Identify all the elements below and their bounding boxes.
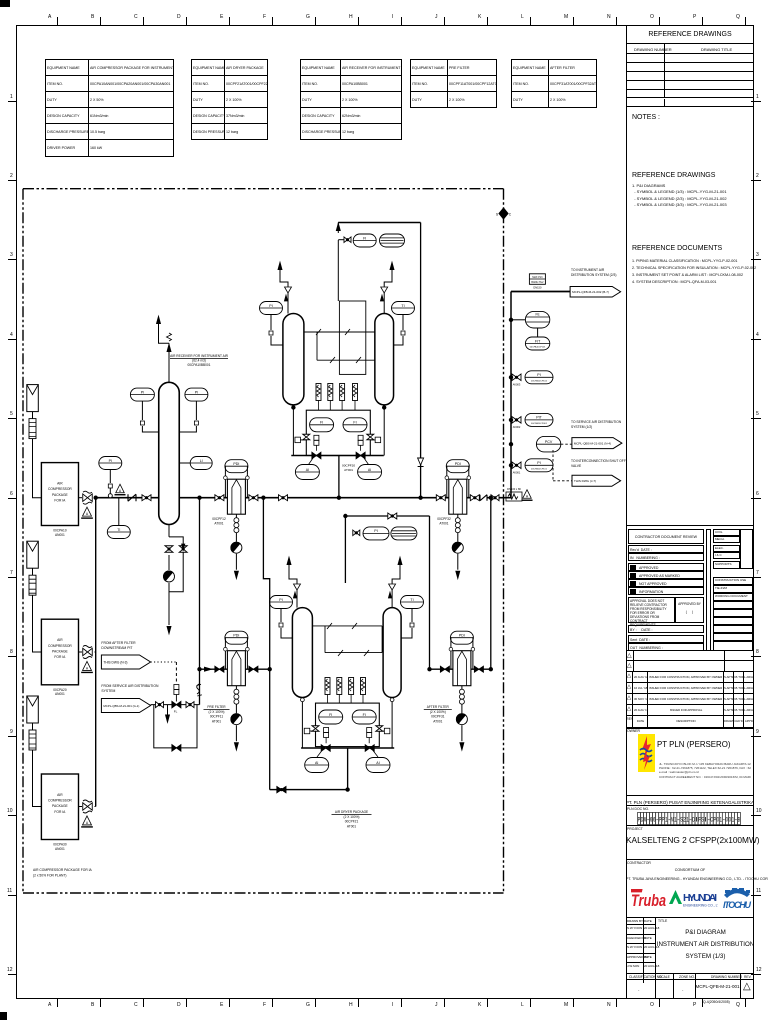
instrument capsule FIT (525, 337, 549, 350)
bypass loop interconnection (154, 705, 197, 748)
instrument capsule PI 00CPA10CP101 (525, 459, 553, 472)
gate valve small left on PI/TI line (353, 530, 360, 536)
svg-text:COMPRESSOR: COMPRESSOR (48, 487, 72, 491)
diagonal stem to AI capsule right 2 (373, 751, 378, 758)
intake flex connector 2 (29, 575, 36, 595)
svg-text:AN001: AN001 (55, 692, 65, 696)
reference drawings header (626, 25, 754, 44)
svg-text:C: C (509, 213, 512, 217)
instrument capsule left of tower A (260, 302, 283, 315)
svg-text:PI: PI (279, 598, 282, 602)
svg-text:00CPA10CP102: 00CPA10CP102 (531, 379, 548, 382)
title block bottom strip (626, 974, 754, 999)
top ruler letters (0, 0, 768, 1)
crossover piping second dryer (312, 625, 382, 627)
svg-text:FI: FI (363, 713, 366, 717)
diagonal stem to AI capsule left 2 (317, 751, 322, 758)
svg-text:(2 X 100%): (2 X 100%) (430, 710, 446, 714)
wire intake to compressor 3 (32, 723, 34, 730)
svg-text:PDI: PDI (459, 634, 465, 638)
PLN logo (638, 734, 655, 772)
svg-text:00CPF32: 00CPF32 (437, 517, 451, 521)
instrument capsule AI below manifold 2 left (305, 758, 329, 773)
RIGHT PANEL (626, 25, 754, 999)
instrument capsule PI on header (99, 457, 122, 470)
angle valve right bottom manifold (356, 452, 365, 459)
svg-text:FIT: FIT (535, 339, 541, 343)
wire receiver drain down (168, 583, 170, 625)
relief spring on receiver vent (167, 333, 172, 341)
junction dots on headers (198, 496, 201, 499)
intake flex connector 1 (29, 419, 36, 439)
vent relief tower A (287, 293, 289, 314)
check valve header battery limit (480, 495, 487, 501)
svg-text:FOR IA: FOR IA (54, 655, 66, 659)
reference drawings list (632, 172, 715, 179)
svg-text:AIR: AIR (57, 793, 63, 797)
svg-text:COMPRESSOR: COMPRESSOR (48, 644, 72, 648)
compressor package box 1 (AIR COMPRESSOR PACKAGE FOR IA) (41, 463, 78, 526)
svg-text:AI: AI (306, 468, 309, 472)
svg-text:TO INTERCONNECTION SHUT OFF: TO INTERCONNECTION SHUT OFF (571, 459, 626, 463)
drain triangle A compressor 2 (83, 661, 92, 670)
signal square symbol (174, 685, 179, 690)
svg-text:PI: PI (537, 373, 540, 377)
filter vessel 00CPF11 (227, 651, 245, 686)
drain trap ball of filter 00CPF11 (231, 714, 242, 725)
vent relief tower C (296, 590, 298, 608)
svg-text:AIR RECEIVER FOR INSTRUMENT AI: AIR RECEIVER FOR INSTRUMENT AIR (170, 354, 229, 358)
equipment table T1: air compressor package (45, 59, 174, 157)
svg-text:TI: TI (410, 598, 413, 602)
svg-text:00CPF31: 00CPF31 (431, 715, 445, 719)
instrument capsule PI right of receiver (185, 388, 208, 401)
receiver drain bypass loop (168, 525, 170, 537)
dryer tower B (right) top package (375, 314, 394, 405)
wire after-filter-31 outlet riser (490, 498, 492, 670)
svg-text:PIT: PIT (536, 416, 542, 420)
svg-text:MCPL-QBS-M-21-001 (G-1): MCPL-QBS-M-21-001 (G-1) (103, 704, 139, 708)
svg-text:PACKAGE: PACKAGE (52, 493, 68, 497)
svg-text:PI: PI (195, 390, 198, 394)
wire tower A bottom to manifold (292, 405, 294, 456)
middle rotated strip (706, 529, 711, 651)
diagonal stem to AI capsule right (364, 458, 369, 465)
svg-text:THIS DWG (N-3): THIS DWG (N-3) (103, 660, 127, 664)
dryer tower A (left) top package (283, 314, 304, 405)
owner block : PT PLN (PERSERO) (626, 728, 754, 1000)
wire header crossing battery limit to riser (487, 497, 511, 499)
solenoid valve left manifold 2 (304, 728, 310, 734)
svg-text:COMPRESSOR: COMPRESSOR (48, 799, 72, 803)
revision table (626, 650, 754, 728)
svg-text:FROM SERVICE AIR DISTRIBUTION: FROM SERVICE AIR DISTRIBUTION (101, 684, 159, 688)
instrument capsule left of tower C (270, 596, 293, 609)
contractor (626, 860, 754, 918)
svg-text:TI: TI (117, 528, 120, 532)
notes (632, 114, 660, 121)
svg-text:AI: AI (368, 468, 371, 472)
instrument capsule AI below manifold right (358, 465, 382, 480)
instrument capsule FI right manifold 2 (352, 710, 376, 724)
drain chain of filter 00CPF32 (457, 514, 459, 518)
instrument capsule right of tower B (392, 302, 415, 315)
svg-text:AIR: AIR (57, 638, 63, 642)
valve AV003 (512, 374, 521, 381)
discharge flex and valve compressor 3 (79, 806, 83, 808)
instrument capsule FI left manifold 2 (319, 710, 343, 724)
drain arrow of filter 00CPF12 (235, 554, 237, 570)
corner scan blob (0, 0, 10, 7)
HOLD PT box on header (529, 274, 545, 285)
triangle A tag on header (116, 484, 125, 493)
wire dryer-2 outlet downcomer (429, 516, 431, 669)
vent bent arrow above receiver (159, 322, 170, 343)
svg-text:PRE FILTER: PRE FILTER (207, 705, 226, 709)
svg-text:FI: FI (320, 421, 323, 425)
wire service air riser A (199, 498, 201, 705)
instrument capsule PIT 00CPA10CP401 (525, 413, 553, 426)
left column (628, 529, 704, 544)
svg-text:AV001: AV001 (513, 471, 521, 475)
flex DN100x80 at battery limit (506, 492, 522, 501)
gate valve header after pre-filter (279, 495, 288, 501)
wire capsule to tower A (270, 315, 272, 331)
connector THIS DWG (J-7) (572, 475, 621, 486)
vessel air receiver 00CPA10BB001 (159, 382, 180, 524)
svg-text:AIR COMPRESSOR PACKAGE FOR IA: AIR COMPRESSOR PACKAGE FOR IA (33, 868, 93, 872)
dashed signal line down to THIS DWG connector (552, 450, 554, 481)
right ruler numbers (0, 0, 768, 1)
instrument capsule PCV to service air (536, 436, 560, 452)
svg-text:(2 x 50% FOR PLANT): (2 x 50% FOR PLANT) (33, 874, 67, 878)
drain chain of filter 00CPF31 (461, 686, 463, 690)
wire receiver vent line (168, 343, 170, 382)
gate valve on second dryer inlet (388, 513, 397, 519)
bypass globe valve (172, 745, 181, 752)
wire from service air connector (151, 704, 200, 706)
svg-text:AV002: AV002 (513, 425, 521, 429)
Itochu logo (722, 885, 752, 912)
svg-text:DOWNSTREAM PIT: DOWNSTREAM PIT (101, 646, 132, 650)
svg-text:PI: PI (269, 304, 272, 308)
drain valve right branch (179, 546, 187, 553)
contractor document review block (626, 525, 754, 650)
drain chain of filter 00CPF11 (235, 686, 237, 690)
node S.C boundary diamond (499, 208, 508, 219)
drain chain of filter 00CPF12 (235, 514, 237, 518)
svg-text:AIR: AIR (57, 482, 63, 486)
drain trap ball of filter 00CPF31 (456, 714, 467, 725)
drain arrow of filter 00CPF32 (457, 554, 459, 570)
instrument capsule TI after dryer (391, 527, 417, 540)
gate valve on interconnection (156, 702, 164, 708)
wire top distribution header (511, 291, 571, 293)
svg-text:00CPA10CP401: 00CPA10CP401 (531, 422, 548, 425)
svg-text:AN001: AN001 (55, 533, 65, 537)
instrument capsule FI right in manifold (343, 418, 367, 432)
wire discharge collector vertical (95, 498, 97, 807)
svg-text:AT001: AT001 (214, 521, 223, 525)
wire riser B upper (263, 498, 269, 790)
svg-text:LI: LI (200, 459, 203, 463)
svg-text:DISTRIBUTION SYSTEM (2/3): DISTRIBUTION SYSTEM (2/3) (571, 273, 616, 277)
wire header to riser (504, 497, 512, 499)
check valve on header (128, 494, 136, 501)
wire PI to header (109, 470, 111, 484)
impulse lines PDI 00CPF12 (224, 475, 226, 498)
instrument capsule LI right of receiver (190, 457, 212, 470)
svg-text:MAX P13: MAX P13 (532, 276, 543, 279)
svg-text:PI: PI (109, 459, 112, 463)
instrument capsule PDI of filter 00CPF12 (225, 460, 248, 473)
compressor package box 3 (AIR COMPRESSOR PACKAGE FOR IA) (41, 774, 78, 840)
drain branch of interconnection (167, 705, 169, 719)
top dryer manifold box (306, 410, 370, 455)
left ruler numbers (0, 0, 768, 1)
svg-text:00CPA10CF101: 00CPA10CF101 (530, 345, 547, 348)
instrument capsule PI after dryer (363, 527, 389, 540)
discharge flex and valve compressor 2 (79, 651, 83, 653)
svg-text:AI: AI (315, 761, 318, 765)
gate valve 2 on interconnection (186, 702, 194, 708)
gate valve left of filter 00CPF11 (215, 666, 224, 672)
connector THIS DWG (N-3) (101, 655, 150, 669)
instrument capsule AI below manifold left (295, 465, 319, 480)
instrument square pair left manifold 2 (324, 728, 329, 733)
gate valve right of filter 00CPF11 (249, 666, 258, 672)
svg-text:PACKAGE: PACKAGE (52, 649, 68, 653)
silencer regen line (380, 234, 405, 247)
instrument capsule FE flow element (525, 311, 549, 328)
svg-text:FL: FL (174, 710, 178, 714)
second dryer manifold box (316, 703, 380, 747)
svg-text:00CPA10: 00CPA10 (53, 529, 67, 533)
svg-text:MCPL-QBS-M-21-001 (N-4): MCPL-QBS-M-21-001 (N-4) (574, 442, 611, 446)
angle valve right bottom manifold 2 (365, 745, 374, 752)
dryer tower D (right) second package (383, 608, 401, 698)
heater elements second dryer (325, 678, 330, 695)
instrument capsule PDI of filter 00CPF32 (446, 460, 469, 473)
svg-text:FI: FI (353, 421, 356, 425)
svg-text:(2 X 100%): (2 X 100%) (209, 710, 225, 714)
crossover lower line with valves (317, 359, 375, 361)
svg-text:AV003: AV003 (513, 383, 521, 387)
flow arrow on prefilter header (205, 667, 212, 671)
svg-text:AT001: AT001 (433, 719, 442, 723)
angle valve left bottom manifold (312, 452, 321, 459)
connector MCPL-QBS-M-21-001 (N-4) (572, 438, 622, 449)
wire regeneration vent line top dryer (337, 240, 339, 301)
instrument square pair right manifold (358, 435, 363, 440)
wire discharge 2 to collector (95, 651, 97, 653)
svg-text:TI: TI (401, 304, 404, 308)
vent relief tower D (391, 590, 393, 608)
battery limit boundary (dash-dot box) (23, 189, 504, 893)
svg-text:00CPF21: 00CPF21 (345, 820, 359, 824)
svg-text:AIR DRYER PACKAGE: AIR DRYER PACKAGE (335, 810, 368, 814)
svg-text:PDI: PDI (233, 634, 239, 638)
instrument capsule right of tower D (401, 596, 424, 609)
svg-text:PI: PI (141, 390, 144, 394)
equipment table T5: after filter (511, 59, 597, 108)
svg-text:PACKAGE: PACKAGE (52, 804, 68, 808)
svg-text:DN150: DN150 (533, 286, 542, 290)
crossover upper line with valves (304, 331, 375, 333)
instrument capsule FI regen (353, 234, 376, 247)
svg-text:00CPF12: 00CPF12 (212, 517, 226, 521)
svg-text:S: S (496, 213, 499, 217)
svg-text:TO SERVICE AIR DISTRIBUTION: TO SERVICE AIR DISTRIBUTION (571, 420, 622, 424)
gate valve on header (142, 495, 151, 501)
valve AV001 (512, 462, 521, 469)
bottom ruler letters (0, 0, 768, 1)
gate valve left of filter 00CPF31 (440, 666, 449, 672)
wire regen top header to downcomer (338, 222, 420, 224)
svg-text:FI: FI (363, 236, 366, 240)
wire PI to receiver (195, 401, 197, 420)
svg-text:00CPF11: 00CPF11 (210, 715, 223, 719)
gate valve left of filter 00CPF12 (215, 495, 224, 501)
svg-text:FE: FE (536, 313, 540, 317)
wire second dryer bottom outlet (270, 748, 348, 790)
manifold bottom header top dryer (291, 455, 384, 457)
wire tower B bottom to manifold (383, 405, 385, 456)
valve AV002 (512, 417, 521, 424)
purge valve regen line (344, 237, 351, 243)
air intake filter for compressor 2 (27, 541, 39, 568)
dashed signal PCV to connector (561, 443, 572, 445)
wire prefilter-11 inlet header (200, 668, 270, 670)
solenoid valve left of manifold (295, 437, 301, 443)
angle valve left bottom manifold 2 (321, 745, 330, 752)
wire header to FE (511, 319, 525, 321)
instrument square pair right manifold 2 (367, 728, 372, 733)
filter vessel 00CPF32 (449, 479, 467, 514)
svg-text:PDI: PDI (455, 462, 461, 466)
reference documents (632, 245, 722, 252)
wire dryer-2 inlet bottom run (270, 789, 348, 791)
drain triangle A compressor 3 (83, 816, 92, 825)
instrument capsule AI below manifold 2 right (366, 758, 390, 773)
vent relief tower B (383, 293, 385, 314)
equipment table T3: air receiver (300, 59, 402, 140)
svg-text:FI: FI (329, 713, 332, 717)
Truba logo (631, 887, 667, 911)
right mini table (713, 529, 740, 536)
svg-text:PI: PI (537, 461, 540, 465)
svg-text:BA60x HL2: BA60x HL2 (531, 281, 544, 284)
svg-text:AI: AI (376, 761, 379, 765)
filter vessel 00CPF12 (227, 479, 245, 514)
Hyundai logo (668, 887, 718, 911)
drain trap ball of filter 00CPF32 (452, 542, 463, 553)
wire PSH to receiver (141, 401, 143, 420)
svg-text:FROM AFTER FILTER: FROM AFTER FILTER (101, 641, 136, 645)
wire after-filter-31 header (430, 668, 491, 670)
equipment table T2: air dryer package (191, 59, 268, 140)
svg-text:SYSTEM (1/2): SYSTEM (1/2) (571, 425, 592, 429)
wire dryer-2 inlet riser (347, 748, 349, 790)
instrument square pair left manifold (314, 435, 319, 440)
svg-text:(62.4 m3): (62.4 m3) (192, 359, 206, 363)
impulse lines PDI 00CPF31 (450, 646, 452, 669)
drain triangle A compressor 1 (83, 507, 92, 516)
drain arrow of filter 00CPF31 (461, 725, 463, 741)
wire riser header to top dryer manifold (338, 456, 340, 498)
wire dryer inlet line second package (344, 516, 346, 583)
svg-text:00CPA20: 00CPA20 (53, 688, 67, 692)
svg-text:PI: PI (374, 529, 377, 533)
instrument capsule PDI of filter 00CPF11 (225, 631, 248, 644)
control valve FL with actuator (172, 701, 181, 708)
wire FE to FIT (537, 328, 539, 337)
compressor package box 2 (AIR COMPRESSOR PACKAGE FOR IA) (41, 619, 78, 685)
instrument capsule PSH left of receiver (130, 388, 154, 401)
svg-text:VALVE: VALVE (571, 464, 582, 468)
wire intake to compressor 1 (32, 412, 34, 419)
wire main header from compressors to after-filter (96, 497, 481, 499)
svg-text:FOR IA: FOR IA (54, 810, 66, 814)
filter vessel 00CPF31 (453, 651, 471, 686)
gate valve header battery limit (491, 495, 499, 501)
svg-text:AFTER FILTER: AFTER FILTER (427, 705, 450, 709)
solenoid valve right of manifold (375, 437, 381, 443)
crossover piping box top dryer (339, 301, 365, 374)
equipment table T4: pre filter (410, 59, 497, 108)
svg-text:00CPA30: 00CPA30 (53, 843, 67, 847)
wire tower C bottom to manifold 2 (301, 698, 303, 749)
svg-text:FOR IA: FOR IA (54, 498, 66, 502)
wire discharge 1 to collector (95, 497, 97, 499)
air intake filter for compressor 1 (27, 385, 39, 412)
triangle A tag at battery limit (523, 490, 532, 499)
svg-text:PCV: PCV (545, 440, 553, 444)
gate valve right of filter 00CPF12 (249, 495, 258, 501)
drawn-by / title table (626, 918, 754, 974)
impulse lines PDI 00CPF32 (446, 475, 448, 498)
wire tower D bottom to manifold 2 (391, 698, 393, 749)
wire discharge 3 to collector (95, 806, 97, 808)
heater elements top dryer (316, 384, 321, 401)
svg-text:AN001: AN001 (55, 847, 65, 851)
air intake filter for compressor 3 (27, 696, 39, 723)
svg-text:SYSTEM: SYSTEM (101, 689, 115, 693)
instrument capsule TI below header (107, 526, 130, 539)
impulse lines PDI 00CPF11 (224, 646, 226, 669)
manifold bottom header second dryer (301, 747, 394, 749)
gate valve left of filter 00CPF32 (436, 495, 445, 501)
instrument capsule PI 00CPA10CP102 (525, 371, 553, 384)
connector MCPL-QBS-M-21-001 (G-1) (101, 699, 150, 713)
dryer tower C (left) second package (292, 608, 312, 698)
svg-text:DN100 x 80: DN100 x 80 (507, 487, 521, 491)
wire intake to compressor 2 (32, 568, 34, 575)
gate valve right of filter 00CPF31 (474, 666, 483, 672)
svg-text:00CPA10CP101: 00CPA10CP101 (531, 467, 548, 470)
connector MCPL-QFB-M-21-002 (B-7) (570, 287, 621, 298)
valve on dryer-2 inlet run (277, 787, 286, 793)
wire riser to AV003 (511, 376, 512, 378)
svg-text:00CPA10BB001: 00CPA10BB001 (188, 363, 211, 367)
svg-text:(2 X 100%): (2 X 100%) (344, 815, 360, 819)
svg-text:AT001: AT001 (344, 468, 353, 472)
PLN DOC NO barcode row (626, 806, 754, 826)
svg-text:AT001: AT001 (347, 824, 356, 828)
svg-text:TO INSTRUMENT AIR: TO INSTRUMENT AIR (571, 268, 605, 272)
dotted signal from connector (151, 661, 177, 663)
svg-text:MCPL-QFB-M-21-002 (B-7): MCPL-QFB-M-21-002 (B-7) (572, 290, 609, 294)
